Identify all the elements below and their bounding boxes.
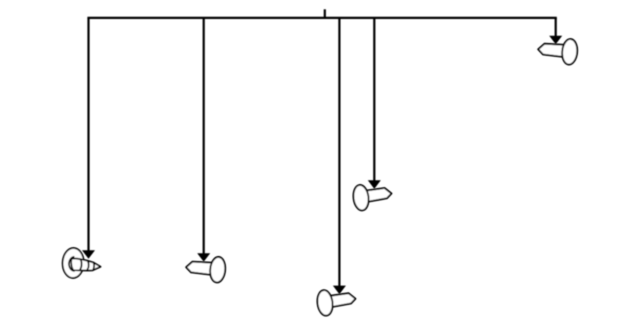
- icon: screw clipart (branch 1): [62, 248, 101, 279]
- arrowhead 2: [197, 253, 210, 262]
- wire: branch 3 drop: [338, 18, 340, 287]
- arrowhead 3: [333, 286, 346, 295]
- arrowhead 4: [368, 180, 381, 189]
- icon: nail pointing left (branch 5): [538, 38, 578, 65]
- tick: center stub above bus: [324, 9, 326, 18]
- arrowhead 5: [549, 36, 562, 45]
- arrowhead 1: [82, 250, 95, 259]
- wire: branch 4 drop: [373, 18, 375, 181]
- wire: branch 1 drop: [87, 18, 89, 251]
- icon: nail pointing right (branch 4): [352, 184, 392, 211]
- icon: nail pointing right (branch 3): [316, 289, 356, 316]
- wire: branch 2 drop: [203, 18, 205, 254]
- icon: nail pointing left (branch 2): [186, 256, 226, 283]
- wire: top horizontal bus: [87, 17, 556, 19]
- wire: branch 5 drop: [555, 18, 557, 37]
